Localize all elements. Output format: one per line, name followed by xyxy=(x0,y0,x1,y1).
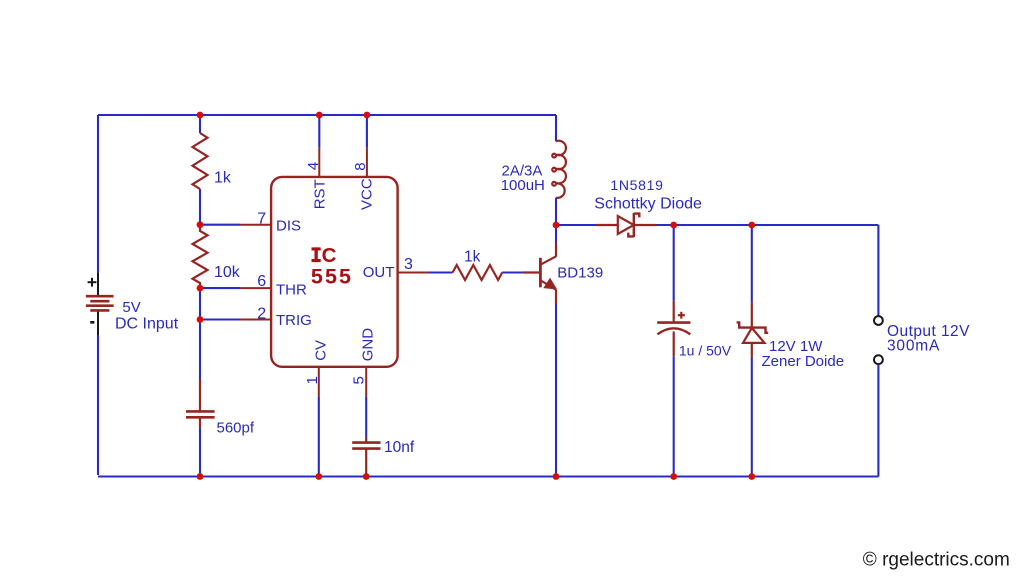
svg-text:DIS: DIS xyxy=(276,218,301,235)
wire pin 5 to C2 xyxy=(365,397,367,437)
svg-text:7: 7 xyxy=(257,210,266,227)
wire top rail xyxy=(98,114,556,116)
terminal lower output xyxy=(874,355,883,364)
junction dot TRIG node xyxy=(197,316,204,323)
wire pin 1 to bottom rail xyxy=(318,397,320,477)
wire collector node to D1 xyxy=(556,224,596,226)
svg-text:5V: 5V xyxy=(122,299,140,316)
battery B1 5V xyxy=(86,273,114,335)
svg-text:1N5819: 1N5819 xyxy=(610,177,663,193)
svg-text:555: 555 xyxy=(311,264,353,288)
pin 4 stub RST xyxy=(318,148,320,177)
junction dot bottom rail C3 xyxy=(670,473,677,480)
capacitor C1 560pf xyxy=(186,379,215,428)
wire top rail corner down to L1 xyxy=(555,115,557,141)
pin 1 stub CV xyxy=(318,367,320,397)
wire D2 bottom to rail xyxy=(751,357,753,477)
label IC xyxy=(312,244,337,267)
junction dot C3 top node xyxy=(670,222,677,229)
wire R1 top lead xyxy=(199,115,201,133)
wire out rail xyxy=(674,224,879,226)
wire pin 3 to R3 xyxy=(429,271,453,273)
wire collector to node xyxy=(555,225,557,243)
junction dot D2 top node xyxy=(748,222,755,229)
svg-text:300mA: 300mA xyxy=(887,337,940,354)
svg-text:THR: THR xyxy=(276,282,307,299)
junction dot bottom rail C2 xyxy=(363,473,370,480)
svg-text:2: 2 xyxy=(257,306,266,323)
pin 3 stub OUT xyxy=(398,272,429,274)
junction dot top rail R1 xyxy=(197,112,204,119)
wire pin 8 to top rail xyxy=(366,115,368,148)
resistor R3 1k horizontal xyxy=(453,265,503,280)
svg-text:OUT: OUT xyxy=(363,264,395,281)
svg-text:Schottky Diode: Schottky Diode xyxy=(594,195,702,212)
diode D1 1N5819 schottky xyxy=(596,213,657,237)
wire THR node to TRIG node xyxy=(199,288,201,319)
junction dot bottom rail pin1 xyxy=(315,473,322,480)
pin 6 stub THR xyxy=(240,287,271,289)
svg-text:4: 4 xyxy=(305,162,322,170)
svg-text:© rgelectrics.com: © rgelectrics.com xyxy=(863,550,1010,571)
wire R3 to base xyxy=(502,271,522,273)
wire TRIG node to pin 2 xyxy=(200,318,240,320)
junction dot THR node xyxy=(197,285,204,292)
svg-text:3: 3 xyxy=(404,256,413,273)
wire left vertical upper (to battery +) xyxy=(97,115,99,273)
svg-text:1k: 1k xyxy=(464,249,481,266)
pin 5 stub GND xyxy=(365,367,367,397)
IC U1 555 body xyxy=(271,177,398,367)
junction dot bottom rail emitter xyxy=(553,473,560,480)
junction dot bottom rail C1 xyxy=(197,473,204,480)
svg-text:100uH: 100uH xyxy=(501,177,545,194)
transistor Q1 BD139 xyxy=(523,243,556,304)
svg-text:10nf: 10nf xyxy=(384,439,415,456)
wire left vertical lower (battery - to bottom rail) xyxy=(97,335,99,475)
diode D2 zener 12V xyxy=(737,302,769,357)
resistor R2 10k vertical xyxy=(193,225,208,288)
svg-text:8: 8 xyxy=(352,162,369,170)
svg-text:5: 5 xyxy=(350,376,367,384)
capacitor C2 10nf xyxy=(352,437,380,477)
wire THR node to pin 6 xyxy=(200,287,240,289)
capacitor C3 1u/50V polarized xyxy=(657,301,690,356)
wire L1 bottom to collector node xyxy=(555,198,557,225)
pin 2 stub TRIG xyxy=(240,319,271,321)
svg-text:RST: RST xyxy=(312,179,329,209)
junction dot top rail pin8 xyxy=(364,112,371,119)
svg-text:1: 1 xyxy=(304,376,321,384)
pin 7 stub DIS xyxy=(240,224,271,226)
wire DIS node to pin 7 xyxy=(200,224,240,226)
svg-text:1u / 50V: 1u / 50V xyxy=(679,343,732,359)
junction dot top rail pin4 xyxy=(316,112,323,119)
svg-text:VCC: VCC xyxy=(358,178,375,210)
terminal upper output xyxy=(874,316,883,325)
svg-text:BD139: BD139 xyxy=(557,264,603,281)
wire C1 bottom to rail xyxy=(199,428,201,477)
svg-text:Zener Doide: Zener Doide xyxy=(762,353,845,370)
resistor R1 1k vertical xyxy=(193,133,208,189)
wire TRIG node down to C1 xyxy=(199,320,201,380)
svg-text:1k: 1k xyxy=(214,170,232,187)
wire out node down to C3 xyxy=(673,225,675,301)
junction dot bottom rail D2 xyxy=(748,473,755,480)
svg-text:6: 6 xyxy=(257,273,266,290)
wire pin 4 to top rail xyxy=(318,115,320,148)
junction dot DIS node xyxy=(197,221,204,228)
svg-text:DC Input: DC Input xyxy=(115,315,179,332)
wire bottom rail xyxy=(98,475,878,477)
wire zener node down to D2 xyxy=(751,225,753,302)
svg-text:CV: CV xyxy=(313,340,330,361)
wire lower terminal to bottom rail xyxy=(877,364,879,476)
svg-text:560pf: 560pf xyxy=(217,419,255,436)
svg-text:GND: GND xyxy=(360,328,377,362)
wire R1 bottom lead to DIS node xyxy=(199,189,201,225)
wire emitter to bottom rail xyxy=(555,304,557,477)
svg-text:TRIG: TRIG xyxy=(276,312,312,329)
junction dot collector node xyxy=(553,222,560,229)
svg-text:10k: 10k xyxy=(214,264,241,281)
inductor L1 100uH xyxy=(552,141,566,198)
wire D1 to out node xyxy=(657,224,674,226)
wire C3 bottom to rail xyxy=(673,356,675,476)
pin 8 stub VCC xyxy=(366,148,368,177)
wire right vertical to upper terminal xyxy=(877,225,879,316)
